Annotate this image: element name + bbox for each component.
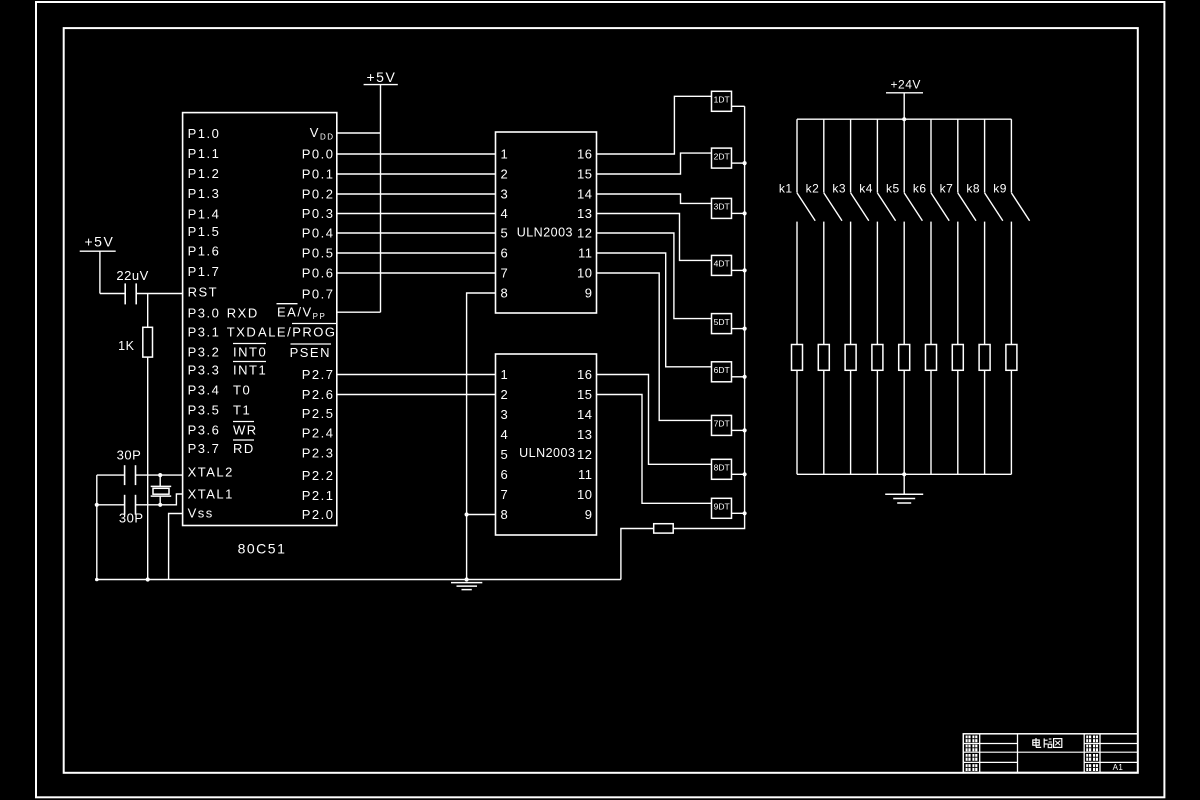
power symbol +5V (logic supply)	[364, 84, 398, 86]
capacitor C2 30P	[124, 465, 126, 485]
svg-text:14: 14	[577, 187, 592, 202]
wire left node to C2	[97, 474, 125, 476]
svg-text:5: 5	[501, 226, 509, 241]
svg-text:22uV: 22uV	[116, 268, 148, 283]
node DT bus junctions	[743, 161, 747, 165]
svg-text:8: 8	[501, 507, 509, 522]
wire top bus to switch k9	[1010, 119, 1012, 192]
svg-text:15: 15	[577, 167, 592, 182]
wire crystal top lead	[159, 475, 161, 486]
wire resistor R14 to bottom bus	[876, 370, 878, 474]
svg-text:Vss: Vss	[188, 506, 214, 521]
wire P0.1 to U2 pin 2	[337, 173, 496, 175]
wire top bus to switch k2	[823, 119, 825, 192]
svg-text:TXD: TXD	[227, 325, 257, 340]
wire EA/VPP pin to +5V	[337, 311, 381, 313]
resistor R15	[899, 345, 910, 371]
svg-text:P2.7: P2.7	[302, 367, 335, 382]
switch k1 blade	[797, 193, 815, 221]
wire C1 to RST pin	[136, 293, 182, 295]
wire left oscillator bus to ground rail	[96, 475, 98, 579]
svg-text:T1: T1	[233, 403, 251, 418]
solenoid driver box 7DT	[712, 415, 732, 435]
wire U2 pin 16 to 1DT	[597, 96, 712, 154]
node U3 pin8 junction	[465, 512, 469, 516]
solenoid driver box 8DT	[712, 459, 732, 479]
solenoid driver box 1DT	[712, 91, 732, 111]
svg-text:P2.6: P2.6	[302, 387, 335, 402]
wire switch bank bottom bus	[797, 473, 1011, 475]
svg-text:P1.1: P1.1	[188, 146, 221, 161]
wire U2 pin 10 to 7DT	[597, 273, 712, 420]
svg-text:P3.3: P3.3	[188, 363, 221, 378]
svg-text:1K: 1K	[118, 339, 134, 353]
node XTAL2-crystal junction	[158, 473, 162, 477]
svg-text:k2: k2	[806, 181, 820, 195]
svg-text:5DT: 5DT	[714, 317, 730, 327]
resistor R16	[926, 345, 937, 371]
crystal Y1	[151, 485, 172, 487]
svg-text:P0.4: P0.4	[302, 226, 335, 241]
svg-text:12: 12	[577, 226, 592, 241]
wire R10 to ground rail	[621, 529, 654, 580]
svg-text:P3.1: P3.1	[188, 325, 221, 340]
svg-text:2: 2	[501, 387, 509, 402]
wire XTAL1 pin jog	[136, 494, 183, 505]
title block left row labels	[966, 736, 971, 743]
svg-text:2: 2	[501, 167, 509, 182]
resistor R19	[1006, 345, 1017, 371]
switch k7 blade	[958, 193, 976, 221]
IC U2 ULN2003 body	[496, 132, 597, 313]
solenoid driver box 9DT	[712, 498, 732, 518]
wire U2 pin 12 to 5DT	[597, 233, 712, 319]
svg-text:P1.4: P1.4	[188, 206, 221, 221]
svg-text:ALE/PROG: ALE/PROG	[258, 325, 336, 340]
capacitor C1 22uV	[124, 283, 126, 304]
switch k4 blade	[877, 193, 895, 221]
wire 7DT output to bus	[732, 429, 745, 431]
svg-text:4: 4	[501, 427, 509, 442]
svg-text:30P: 30P	[117, 448, 142, 463]
wire U2 pin 8 to ground	[467, 293, 496, 580]
wire 9DT output to bus	[732, 512, 745, 514]
svg-text:6: 6	[501, 467, 509, 482]
svg-text:13: 13	[577, 206, 592, 221]
svg-text:5: 5	[501, 447, 509, 462]
wire switch k3 to resistor R13	[850, 222, 852, 345]
switch k5 blade	[904, 193, 922, 221]
node oscillator bus rail junction	[95, 578, 99, 582]
capacitor C3 30P	[124, 495, 126, 515]
svg-text:13: 13	[577, 427, 592, 442]
svg-text:P0.5: P0.5	[302, 246, 335, 261]
svg-text:INT0: INT0	[233, 345, 267, 360]
node XTAL1-crystal junction	[158, 503, 162, 507]
svg-text:14: 14	[577, 407, 592, 422]
svg-text:INT1: INT1	[233, 363, 267, 378]
svg-text:P3.7: P3.7	[188, 441, 221, 456]
svg-text:k9: k9	[993, 181, 1007, 195]
svg-text:A1: A1	[1113, 763, 1124, 772]
wire resistor R15 to bottom bus	[903, 370, 905, 474]
svg-text:P1.5: P1.5	[188, 224, 221, 239]
solenoid driver box 3DT	[712, 198, 732, 218]
node +24V bus junction	[902, 117, 906, 121]
wire switch k4 to resistor R14	[876, 222, 878, 345]
wire U2 pin 11 to 6DT	[597, 253, 712, 367]
svg-text:9: 9	[585, 286, 593, 301]
svg-text:P2.2: P2.2	[302, 468, 335, 483]
svg-text:1: 1	[501, 147, 509, 162]
svg-text:12: 12	[577, 447, 592, 462]
wire crystal bottom lead	[159, 496, 161, 505]
svg-text:P0.1: P0.1	[302, 167, 335, 182]
svg-text:11: 11	[578, 467, 593, 482]
svg-text:16: 16	[577, 367, 592, 382]
wire +24V top bus	[797, 118, 1011, 120]
svg-text:8DT: 8DT	[714, 463, 730, 473]
svg-text:3DT: 3DT	[714, 202, 730, 212]
resistor R11	[792, 345, 803, 371]
svg-text:P0.7: P0.7	[302, 287, 335, 302]
wire U3 pin 16 to 8DT	[597, 375, 712, 465]
resistor R18	[979, 345, 990, 371]
svg-text:XTAL2: XTAL2	[188, 465, 234, 480]
svg-text:1: 1	[501, 367, 509, 382]
wire top bus to switch k3	[850, 119, 852, 192]
svg-text:k7: k7	[940, 181, 954, 195]
svg-text:P1.0: P1.0	[188, 126, 221, 141]
wire R1 to ground rail	[147, 357, 149, 579]
wire C2 to XTAL2 pin	[136, 474, 183, 476]
wire P2.6 to U3 pin 2	[337, 394, 496, 396]
node R1-rail junction	[146, 577, 150, 581]
ground symbol (logic)	[451, 582, 482, 584]
resistor R10	[654, 524, 674, 533]
wire top bus to switch k7	[957, 119, 959, 192]
svg-text:+5V: +5V	[84, 234, 114, 250]
wire P0.0 to U2 pin 1	[337, 153, 496, 155]
power symbol +24V	[886, 92, 923, 94]
svg-text:T0: T0	[233, 383, 251, 398]
wire +5V to capacitor C1	[100, 293, 125, 295]
svg-text:P0.6: P0.6	[302, 266, 335, 281]
wire resistor R18 to bottom bus	[984, 370, 986, 474]
svg-text:6: 6	[501, 246, 509, 261]
svg-text:PSEN: PSEN	[290, 345, 331, 360]
svg-text:+5V: +5V	[366, 69, 396, 85]
resistor R13	[845, 345, 856, 371]
svg-text:k1: k1	[779, 181, 793, 195]
wire 4DT output to bus	[732, 269, 745, 271]
wire Vss pin to ground rail	[169, 514, 183, 580]
solenoid driver box 6DT	[712, 362, 732, 382]
svg-text:1DT: 1DT	[714, 95, 730, 105]
svg-text:4DT: 4DT	[714, 259, 730, 269]
title block drawing title (dian lu tu)	[1033, 740, 1039, 745]
svg-text:P2.1: P2.1	[302, 488, 335, 503]
svg-text:P1.3: P1.3	[188, 186, 221, 201]
wire P2.7 to U3 pin 1	[337, 374, 496, 376]
wire node RST to resistor R1	[147, 294, 149, 328]
svg-text:11: 11	[578, 246, 593, 261]
IC U1 80C51 body	[183, 113, 337, 526]
svg-text:P2.3: P2.3	[302, 446, 335, 461]
svg-text:7DT: 7DT	[714, 419, 730, 429]
svg-text:P0.2: P0.2	[302, 187, 335, 202]
svg-text:k6: k6	[913, 181, 927, 195]
wire resistor R19 to bottom bus	[1010, 370, 1012, 474]
title block right row labels	[1086, 736, 1091, 743]
node ground rail junction	[465, 577, 469, 581]
node bottom bus ground junction	[902, 472, 906, 476]
switch k2 blade	[824, 193, 842, 221]
wire resistor R13 to bottom bus	[850, 370, 852, 474]
svg-text:15: 15	[577, 387, 592, 402]
wire 3DT output to bus	[732, 212, 745, 214]
wire resistor R11 to bottom bus	[796, 370, 798, 474]
svg-text:XTAL1: XTAL1	[188, 487, 234, 502]
wire resistor R16 to bottom bus	[930, 370, 932, 474]
wire C3 to left node	[97, 504, 125, 506]
wire switch k1 to resistor R11	[796, 222, 798, 345]
wire switch k2 to resistor R12	[823, 222, 825, 345]
wire U2 pin 13 to 4DT	[597, 214, 712, 261]
svg-text:P2.0: P2.0	[302, 507, 335, 522]
switch k3 blade	[851, 193, 869, 221]
svg-text:P3.5: P3.5	[188, 403, 221, 418]
svg-text:2DT: 2DT	[714, 151, 730, 161]
wire P0.4 to U2 pin 5	[337, 232, 496, 234]
wire top bus to switch k4	[876, 119, 878, 192]
wire P0.6 to U2 pin 7	[337, 272, 496, 274]
resistor R14	[872, 345, 883, 371]
svg-text:RXD: RXD	[227, 306, 259, 321]
solenoid driver box 2DT	[712, 148, 732, 168]
wire resistor R17 to bottom bus	[957, 370, 959, 474]
svg-text:3: 3	[501, 187, 509, 202]
svg-text:k4: k4	[859, 181, 873, 195]
wire 6DT output to bus	[732, 376, 745, 378]
solenoid driver box 4DT	[712, 255, 732, 275]
wire U2 pin 14 to 3DT	[597, 194, 712, 203]
wire 2DT output to bus	[732, 162, 745, 164]
wire P0.3 to U2 pin 4	[337, 213, 496, 215]
resistor R1 1K	[143, 327, 153, 357]
wire ground rail	[97, 579, 621, 581]
svg-text:10: 10	[577, 266, 592, 281]
svg-text:k3: k3	[832, 181, 846, 195]
svg-text:P3.6: P3.6	[188, 423, 221, 438]
wire resistor R12 to bottom bus	[823, 370, 825, 474]
solenoid driver box 5DT	[712, 314, 732, 334]
ground symbol (+24V return)	[885, 493, 923, 495]
wire switch k9 to resistor R19	[1010, 222, 1012, 345]
wire ground stem	[903, 474, 905, 494]
svg-text:ULN2003: ULN2003	[517, 226, 573, 240]
svg-text:P1.2: P1.2	[188, 166, 221, 181]
svg-text:WR: WR	[233, 423, 258, 438]
svg-text:7: 7	[501, 487, 509, 502]
svg-text:4: 4	[501, 206, 509, 221]
wire U3 pin 8 to ground	[467, 514, 496, 516]
svg-text:P1.6: P1.6	[188, 244, 221, 259]
svg-text:+24V: +24V	[891, 77, 921, 91]
svg-text:P1.7: P1.7	[188, 264, 221, 279]
svg-text:P0.0: P0.0	[302, 147, 335, 162]
svg-text:RD: RD	[233, 441, 255, 456]
title block	[963, 734, 1138, 773]
wire P0.2 to U2 pin 3	[337, 193, 496, 195]
wire 1DT output to bus	[732, 105, 745, 107]
IC U3 ULN2003 body	[496, 354, 597, 535]
wire switch k5 to resistor R15	[903, 222, 905, 345]
wire switch k8 to resistor R18	[984, 222, 986, 345]
svg-text:k8: k8	[966, 181, 980, 195]
switch k8 blade	[985, 193, 1003, 221]
svg-text:3: 3	[501, 407, 509, 422]
switch k6 blade	[931, 193, 949, 221]
svg-text:ULN2003: ULN2003	[519, 446, 575, 460]
node left oscillator bus junction	[95, 503, 99, 507]
wire top bus to switch k1	[796, 119, 798, 192]
wire DT common bus	[673, 106, 744, 528]
svg-text:P3.2: P3.2	[188, 345, 221, 360]
wire U3 pin 15 to 9DT	[597, 395, 712, 504]
svg-text:9DT: 9DT	[714, 502, 730, 512]
svg-text:P2.5: P2.5	[302, 406, 335, 421]
wire top bus to switch k8	[984, 119, 986, 192]
wire VDD pin to +5V	[337, 132, 381, 134]
svg-text:P2.4: P2.4	[302, 426, 335, 441]
svg-text:k5: k5	[886, 181, 900, 195]
svg-text:RST: RST	[188, 285, 219, 300]
wire switch k6 to resistor R16	[930, 222, 932, 345]
power symbol +5V (reset circuit)	[80, 250, 116, 252]
svg-text:10: 10	[577, 487, 592, 502]
svg-text:30P: 30P	[119, 510, 144, 525]
wire 5DT output to bus	[732, 328, 745, 330]
wire U2 pin 15 to 2DT	[597, 153, 712, 174]
resistor R12	[818, 345, 829, 371]
svg-text:P0.3: P0.3	[302, 206, 335, 221]
wire switch k7 to resistor R17	[957, 222, 959, 345]
svg-text:7: 7	[501, 266, 509, 281]
svg-text:P3.0: P3.0	[188, 306, 221, 321]
resistor R17	[952, 345, 963, 371]
wire 8DT output to bus	[732, 473, 745, 475]
svg-text:9: 9	[585, 507, 593, 522]
wire P0.5 to U2 pin 6	[337, 252, 496, 254]
wire top bus to switch k5	[903, 119, 905, 192]
wire top bus to switch k6	[930, 119, 932, 192]
svg-text:P3.4: P3.4	[188, 383, 221, 398]
svg-text:80C51: 80C51	[238, 541, 287, 557]
svg-text:16: 16	[577, 147, 592, 162]
svg-text:6DT: 6DT	[714, 365, 730, 375]
svg-text:8: 8	[501, 286, 509, 301]
switch k9 blade	[1011, 193, 1029, 221]
